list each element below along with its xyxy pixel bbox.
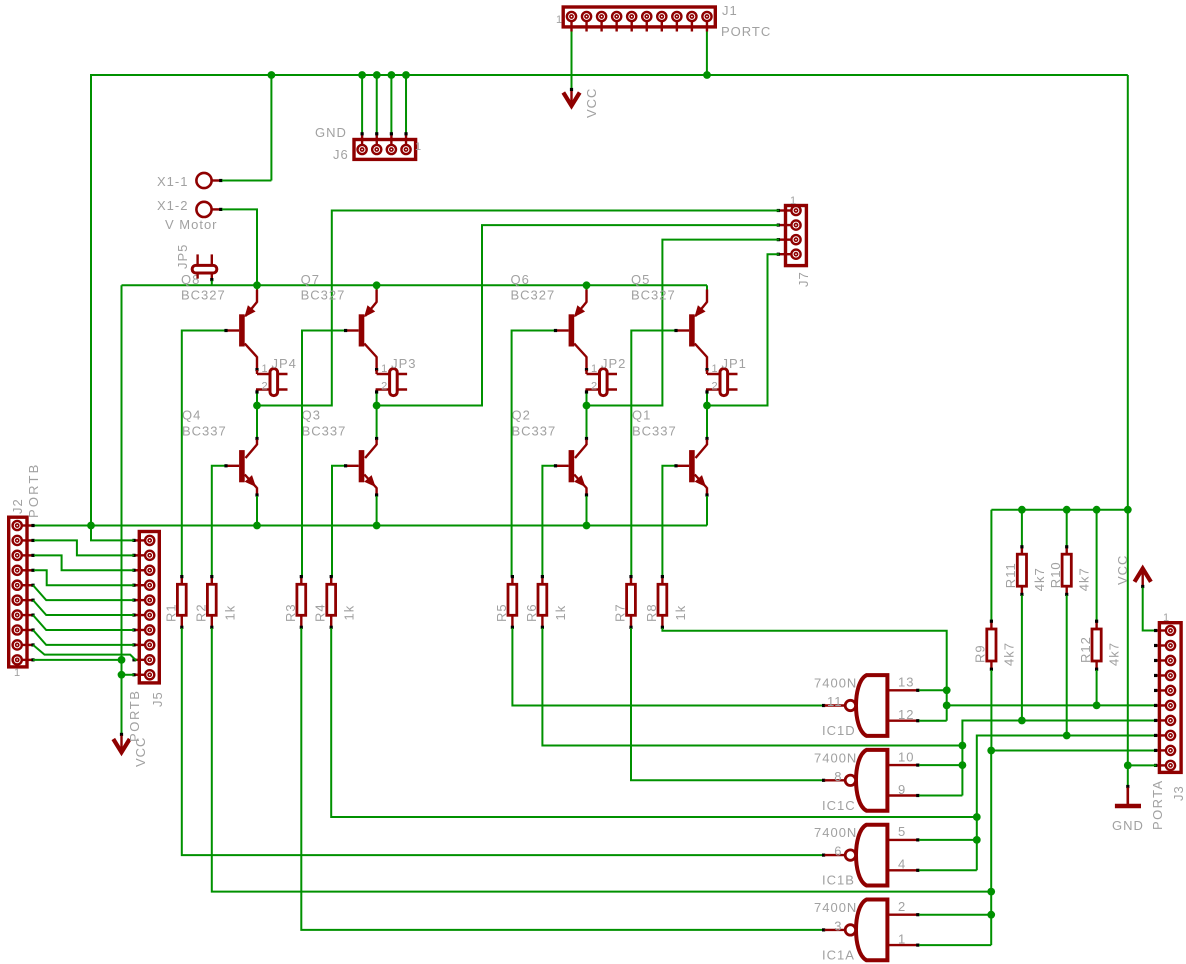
wire IC1C vertical to J3 pin7: [962, 721, 1156, 796]
junction emitter rail column3: [583, 281, 591, 289]
junction IC1D pin13: [943, 686, 951, 694]
svg-text:VCC: VCC: [1115, 555, 1130, 585]
label JP2: [601, 356, 626, 371]
junction R12 on J3 pin6 line: [1093, 702, 1101, 710]
label Q6: [511, 272, 530, 287]
svg-text:R6: R6: [524, 603, 539, 622]
label Q4: [182, 408, 201, 423]
label pin 5 of IC1B: [898, 824, 906, 839]
resistor R10 4k7: [1062, 510, 1071, 736]
label 1k for R6: [553, 605, 568, 621]
label IC1C: [822, 798, 856, 813]
label PORTB at J2: [26, 462, 41, 518]
wire X1-2 to emitter rail: [222, 209, 257, 285]
svg-text:BC337: BC337: [632, 424, 677, 439]
wire IC1B input pin4: [919, 869, 977, 871]
label JP4: [272, 356, 297, 371]
connector J3 PORTA: [1154, 623, 1181, 773]
wire mid node column3: [586, 394, 588, 438]
svg-text:4k7: 4k7: [1032, 567, 1047, 591]
svg-text:JP3: JP3: [391, 356, 416, 371]
resistor R4 1k: [327, 575, 336, 629]
label pin 8 of IC1C: [834, 769, 842, 784]
svg-text:R10: R10: [1048, 561, 1063, 588]
svg-text:PORTC: PORTC: [721, 24, 771, 39]
label JP1 pin1 number: [712, 363, 719, 375]
label 1k for R2: [222, 605, 237, 621]
resistor R1 1k: [177, 575, 186, 629]
label 4k7 for R11: [1032, 567, 1047, 591]
svg-text:12: 12: [898, 707, 914, 722]
power symbol VCC at J3: [1135, 569, 1151, 589]
terminal X1-1: [196, 173, 222, 188]
junction R6 on IC1C vertical: [959, 742, 967, 750]
svg-text:3: 3: [834, 918, 842, 933]
svg-text:BC327: BC327: [631, 288, 676, 303]
junction top rail / J1 pin10: [703, 71, 711, 79]
label R11: [1003, 562, 1018, 588]
svg-text:1k: 1k: [553, 605, 568, 621]
label X1-1: [157, 174, 188, 189]
svg-text:IC1D: IC1D: [822, 723, 856, 738]
junction mid node column4: [703, 402, 711, 410]
svg-text:JP2: JP2: [601, 356, 626, 371]
label pin 4 of IC1B: [898, 857, 906, 872]
label PORTA: [1150, 779, 1165, 830]
wire J3 pin10 to GND: [1128, 764, 1157, 766]
junction rail / R12: [1093, 506, 1101, 514]
svg-text:JP5: JP5: [175, 244, 190, 269]
label pin 3 of IC1A: [834, 918, 842, 933]
svg-text:7400N: 7400N: [814, 900, 857, 915]
label JP2 pin2 number: [591, 381, 598, 393]
junction IC1C pin10: [959, 761, 967, 769]
svg-text:BC337: BC337: [512, 424, 557, 439]
junction R4 on IC1B vertical: [973, 813, 981, 821]
label J1: [722, 3, 738, 18]
svg-text:2: 2: [262, 381, 269, 393]
label pin 9 of IC1C: [898, 782, 906, 797]
label 1k for R4: [342, 605, 357, 621]
label J5: [150, 691, 165, 707]
resistor R11 4k7: [1017, 510, 1026, 721]
label pin 6 of IC1B: [834, 844, 842, 859]
label R7: [613, 603, 628, 622]
wire X1-1 to rail: [222, 75, 271, 181]
svg-text:Q4: Q4: [182, 408, 201, 423]
junction R9 on J3 pin9 line: [987, 747, 995, 755]
wire J2 pin3 to J5 pin3: [34, 555, 134, 570]
junction bottom rail column4: [0, 0, 1, 1]
connector J5: [132, 532, 159, 683]
svg-text:JP1: JP1: [722, 356, 747, 371]
label GND at J3: [1112, 818, 1144, 833]
svg-text:IC1B: IC1B: [822, 873, 855, 888]
junction bottom rail column3: [583, 522, 591, 530]
resistor R12 4k7: [1092, 510, 1101, 706]
label pin 10 of IC1C: [898, 749, 914, 764]
junction R11 on J3 pin7 line: [1018, 717, 1026, 725]
svg-text:1: 1: [898, 931, 906, 946]
transistor Q4 BC337 (NPN): [226, 437, 259, 526]
svg-text:4k7: 4k7: [1107, 642, 1122, 666]
label GND at J6: [315, 125, 347, 140]
label 4k7 for R9: [1001, 642, 1016, 666]
label Q7: [301, 272, 320, 287]
label 7400N for IC1A: [814, 900, 857, 915]
svg-text:1: 1: [591, 363, 598, 375]
nand gate IC1A 7400N: [825, 900, 920, 961]
junction GND / J3 pin10: [1124, 762, 1132, 770]
label PORTC: [721, 24, 771, 39]
svg-text:VCC: VCC: [584, 88, 599, 118]
wire R1 to IC1B output: [182, 628, 825, 857]
label R12: [1078, 636, 1093, 663]
label JP3 pin1 number: [381, 363, 388, 375]
label JP2 pin1 number: [591, 363, 598, 375]
svg-text:7400N: 7400N: [814, 825, 857, 840]
transistor Q2 BC337 (NPN): [556, 437, 589, 526]
junction emitter rail column2: [373, 281, 381, 289]
label pin 13 of IC1D: [898, 675, 914, 690]
wire IC1A vertical to J3 pin9: [991, 751, 1156, 946]
resistor R7 1k: [627, 575, 636, 629]
label BC337 for Q1: [632, 424, 677, 439]
wire R2 to IC1A inputs: [212, 628, 991, 892]
wire J2 pin2 to J5 pin2: [34, 540, 134, 555]
label BC327 for Q5: [631, 288, 676, 303]
svg-text:1k: 1k: [222, 605, 237, 621]
label IC1A: [822, 947, 855, 962]
label R6: [524, 603, 539, 622]
jumper JP1: [705, 369, 737, 396]
svg-text:1: 1: [790, 195, 797, 207]
resistor R5 1k: [508, 575, 517, 629]
label J7 pin1 number: [790, 195, 797, 207]
connector J6: [354, 134, 416, 159]
label pin 11 of IC1D: [827, 694, 843, 709]
junction mid node column3: [583, 402, 591, 410]
label PORTB at J5: [127, 689, 142, 742]
resistor R9 4k7: [987, 510, 996, 751]
svg-text:10: 10: [898, 749, 914, 764]
svg-text:R4: R4: [313, 603, 328, 622]
connector J1 PORTC: [563, 7, 715, 32]
label 7400N for IC1B: [814, 825, 857, 840]
svg-text:Q1: Q1: [632, 408, 651, 423]
label Q8: [181, 272, 200, 287]
jumper JP4: [255, 369, 287, 396]
wire IC1D input pin13: [919, 689, 947, 691]
label BC327 for Q7: [301, 288, 346, 303]
label pin 2 of IC1A: [898, 899, 906, 914]
svg-text:1: 1: [262, 363, 269, 375]
junction rail / GND vertical: [1124, 506, 1132, 514]
label J3 pin1 number: [1163, 612, 1170, 624]
svg-text:Q2: Q2: [512, 408, 531, 423]
svg-text:2: 2: [381, 381, 388, 393]
svg-text:GND: GND: [1112, 818, 1144, 833]
wire base Q3 from resistor: [332, 464, 347, 577]
svg-text:5: 5: [898, 824, 906, 839]
svg-text:11: 11: [827, 694, 843, 709]
svg-text:1: 1: [556, 14, 563, 26]
svg-text:4: 4: [898, 857, 906, 872]
svg-text:X1-1: X1-1: [157, 174, 188, 189]
junction rail / R11: [1018, 506, 1026, 514]
svg-text:8: 8: [834, 769, 842, 784]
label 4k7 for R10: [1077, 567, 1092, 591]
wire mid node column4: [706, 394, 708, 438]
label R10: [1048, 561, 1063, 588]
svg-text:9: 9: [898, 782, 906, 797]
svg-text:1: 1: [415, 141, 422, 153]
wire J5 pin10 from VCC vertical: [122, 674, 135, 676]
svg-text:J5: J5: [150, 691, 165, 707]
wire base Q6 from resistor: [512, 329, 558, 577]
transistor Q8 BC327 (PNP): [226, 285, 259, 371]
label R5: [494, 603, 509, 622]
wire PNP emitter rail: [122, 284, 708, 286]
label JP3 pin2 number: [381, 381, 388, 393]
resistor R8 1k: [658, 575, 667, 629]
label JP4 pin2 number: [262, 381, 269, 393]
nand gate IC1C 7400N: [825, 750, 920, 811]
svg-text:R8: R8: [644, 603, 659, 622]
junction mid node column1: [253, 402, 261, 410]
svg-text:13: 13: [898, 675, 914, 690]
label 7400N for IC1C: [814, 750, 857, 765]
wire GND right edge vertical: [1127, 75, 1129, 786]
svg-text:BC327: BC327: [181, 288, 226, 303]
label Q5: [631, 272, 650, 287]
label R1: [163, 603, 178, 622]
wire J7 pin1 to column1 mid node: [258, 211, 779, 406]
label BC337 for Q4: [182, 424, 227, 439]
wire J2 pin6 to J5 pin6: [33, 600, 134, 615]
wire J2 pin5 to J5 pin5: [33, 585, 134, 600]
label IC1B: [822, 873, 855, 888]
ground symbol GND at J3: [1115, 785, 1141, 806]
label 1k for R8: [673, 605, 688, 621]
wire IC1D input pin12: [919, 720, 947, 722]
label IC1D: [822, 723, 856, 738]
wire base Q7 from resistor: [302, 329, 347, 577]
wire R4 to IC1B inputs: [331, 628, 977, 817]
svg-text:V Motor: V Motor: [165, 217, 218, 232]
wire base Q4 from resistor: [212, 464, 228, 577]
svg-text:GND: GND: [315, 125, 347, 140]
label JP4 pin1 number: [262, 363, 269, 375]
label R4: [313, 603, 328, 622]
wire VCC to J3 pin1: [1143, 588, 1157, 631]
resistor R6 1k: [538, 575, 547, 629]
wire IC1A input pin1: [919, 944, 991, 946]
svg-text:PORTB: PORTB: [26, 462, 41, 518]
wire J7 pin2 to column2 mid node: [378, 225, 780, 405]
wire IC1B input pin5: [919, 839, 977, 841]
wire J2 pin9 to J5 pin9: [33, 645, 137, 661]
label JP1 pin2 number: [712, 381, 719, 393]
label J3: [1171, 785, 1186, 801]
wire resistor top rail: [991, 509, 1127, 511]
junction emitter rail column4: [0, 0, 1, 1]
svg-text:2: 2: [898, 899, 906, 914]
wire base Q5 from resistor: [631, 329, 677, 577]
label Q1: [632, 408, 651, 423]
label BC327 for Q6: [511, 288, 556, 303]
label J6: [333, 147, 349, 162]
label BC337 for Q3: [302, 424, 347, 439]
svg-text:IC1A: IC1A: [822, 947, 855, 962]
junction rail / R10: [1063, 506, 1071, 514]
wire IC1B vertical to J3 pin8: [977, 736, 1157, 871]
junction emitter rail column1: [253, 281, 261, 289]
svg-text:1k: 1k: [673, 605, 688, 621]
svg-text:2: 2: [591, 381, 598, 393]
label J2 pin1 number: [14, 667, 21, 679]
label VCC at J1: [584, 88, 599, 118]
svg-text:R9: R9: [973, 644, 988, 663]
transistor Q7 BC327 (PNP): [346, 285, 379, 371]
svg-text:R2: R2: [193, 603, 208, 622]
label BC337 for Q2: [512, 424, 557, 439]
junction bottom rail column2: [373, 522, 381, 530]
label JP3: [391, 356, 416, 371]
label V Motor: [165, 217, 218, 232]
svg-text:6: 6: [834, 844, 842, 859]
label Q2: [512, 408, 531, 423]
label Q3: [302, 408, 321, 423]
svg-text:7400N: 7400N: [814, 676, 857, 691]
terminal X1-2: [196, 202, 222, 217]
nand gate IC1D 7400N: [825, 675, 920, 736]
svg-text:7400N: 7400N: [814, 750, 857, 765]
svg-text:1: 1: [712, 363, 719, 375]
wire J7 pin4 to column4 mid node: [708, 254, 779, 405]
junction R10 on J3 pin8 line: [1063, 732, 1071, 740]
svg-text:2: 2: [712, 381, 719, 393]
label J7: [796, 271, 811, 287]
resistor R3 1k: [297, 575, 306, 629]
transistor Q5 BC327 (PNP): [676, 285, 709, 371]
svg-text:R1: R1: [163, 603, 178, 622]
svg-text:BC327: BC327: [511, 288, 556, 303]
svg-text:4k7: 4k7: [1001, 642, 1016, 666]
label R9: [973, 644, 988, 663]
wire J2 pin10 to VCC node: [33, 659, 122, 661]
svg-text:R5: R5: [494, 603, 509, 622]
label VCC at J5: [133, 737, 148, 767]
label X1-2: [157, 198, 188, 213]
label 7400N for IC1D: [814, 676, 857, 691]
power symbol VCC at J5: [113, 733, 129, 753]
junction mid node column2: [373, 402, 381, 410]
wire J3 pin6 line: [947, 704, 1157, 706]
label pin 1 of IC1A: [898, 931, 906, 946]
wire NPN emitter bottom rail: [32, 525, 707, 527]
svg-text:J6: J6: [333, 147, 349, 162]
svg-text:1k: 1k: [342, 605, 357, 621]
svg-text:Q7: Q7: [301, 272, 320, 287]
junction bottom rail column1: [253, 522, 261, 530]
label BC327 for Q8: [181, 288, 226, 303]
wire J2 pin4 to J5 pin4: [34, 570, 134, 585]
label J1 pin1 number: [556, 14, 563, 26]
svg-text:R3: R3: [283, 603, 298, 622]
svg-text:R7: R7: [613, 603, 628, 622]
transistor Q3 BC337 (NPN): [346, 437, 379, 526]
svg-text:Q3: Q3: [302, 408, 321, 423]
label JP5: [175, 244, 190, 269]
label R3: [283, 603, 298, 622]
label JP1: [722, 356, 747, 371]
wire J2 pin7 to J5 pin7: [33, 615, 134, 630]
power symbol VCC at J1: [563, 91, 579, 106]
wire VCC left vertical: [121, 285, 123, 734]
label pin 12 of IC1D: [898, 707, 914, 722]
svg-text:J3: J3: [1171, 785, 1186, 801]
svg-text:1: 1: [1163, 612, 1170, 624]
junction IC1A pin2: [987, 911, 995, 919]
svg-text:R11: R11: [1003, 562, 1018, 588]
svg-text:JP4: JP4: [272, 356, 297, 371]
nand gate IC1B 7400N: [825, 825, 920, 886]
svg-text:1: 1: [14, 667, 21, 679]
wire IC1A input pin2: [919, 914, 991, 916]
wire base Q2 from resistor: [542, 464, 557, 577]
junction J2 pin10 / VCC vertical: [118, 656, 126, 664]
junction bottom rail / left vertical: [87, 522, 95, 530]
svg-text:BC337: BC337: [182, 424, 227, 439]
label R8: [644, 603, 659, 622]
label J6 pin1 number: [415, 141, 422, 153]
wire J1 pin10 to rail: [706, 32, 708, 76]
junction R2 on IC1A vertical: [987, 888, 995, 896]
junction top rail / X1-1: [268, 71, 276, 79]
wire IC1C input pin9: [919, 795, 962, 797]
svg-text:BC337: BC337: [302, 424, 347, 439]
wire J1 pin1 to VCC: [570, 32, 573, 92]
resistor R2 1k: [207, 575, 216, 629]
wire R7 to IC1C output: [631, 628, 825, 782]
jumper JP3: [375, 369, 407, 396]
wire GND top rail: [91, 75, 1128, 526]
svg-text:Q6: Q6: [511, 272, 530, 287]
wire R3 to IC1A output: [301, 628, 825, 932]
label J2: [10, 498, 25, 514]
svg-text:PORTA: PORTA: [1150, 779, 1165, 830]
svg-text:4k7: 4k7: [1077, 567, 1092, 591]
wire base Q1 from resistor: [662, 464, 677, 577]
jumper JP2: [585, 369, 617, 396]
svg-text:J1: J1: [722, 3, 738, 18]
label 4k7 for R12: [1107, 642, 1122, 666]
junction J5 pin10 / VCC vertical: [118, 671, 126, 679]
junction IC1B pin5: [973, 836, 981, 844]
wire mid node column1: [256, 394, 258, 438]
svg-text:PORTB: PORTB: [127, 689, 142, 742]
label R2: [193, 603, 208, 622]
svg-text:1: 1: [381, 363, 388, 375]
wire R6 to IC1C inputs: [542, 628, 962, 746]
label VCC right: [1115, 555, 1130, 585]
wire IC1C input pin10: [919, 764, 962, 766]
svg-text:R12: R12: [1078, 636, 1093, 663]
svg-text:J2: J2: [10, 498, 25, 514]
svg-text:IC1C: IC1C: [822, 798, 856, 813]
connector J2 PORTB: [9, 517, 35, 667]
